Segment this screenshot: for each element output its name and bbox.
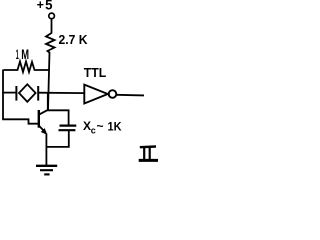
svg-text:2.7 K: 2.7 K [59,32,89,47]
figure numeral II stroke 2 [149,147,151,160]
figure numeral II stroke 1 [143,147,145,160]
supply terminal circle [49,13,55,19]
wire base with jog [2,119,38,123]
capacitor C1 top plate [60,124,77,126]
ground bar 3 [44,173,49,175]
wire collector to capacitor [47,110,68,125]
wire left rail [2,70,4,120]
wire capacitor bottom to emitter node [46,131,68,147]
svg-text:TTL: TTL [84,65,107,80]
svg-text:~: ~ [97,119,104,133]
wire crystal branch left [2,92,16,94]
transistor Q1 emitter lead [40,126,46,133]
svg-text:1: 1 [16,46,19,62]
wire crystal to inverter input [38,92,84,94]
transistor Q1 emitter arrowhead [41,129,47,135]
ground bar 2 [40,169,53,171]
inverter U1 output bubble [109,90,117,98]
transistor Q1 collector lead [40,110,49,115]
wire main bus R1 to collector node [48,52,50,110]
svg-text:c: c [91,125,96,135]
wire terminal to R1 [51,19,53,34]
figure numeral II top serif [140,145,156,148]
wire inverter output [117,94,145,97]
resistor R1 2.7K zigzag [46,33,55,53]
svg-text:+: + [37,0,44,12]
ground bar 1 [36,165,57,167]
svg-text:1K: 1K [108,119,122,133]
wire collector node drop [47,93,49,110]
crystal Y1 left plate [15,86,17,101]
transistor Q1 base bar [38,110,40,128]
svg-text:5: 5 [45,0,53,13]
resistor R2 1M horizontal [4,62,50,73]
figure numeral II bottom serif [139,159,158,162]
capacitor C1 bottom plate [59,129,76,131]
crystal Y1 diamond body [19,84,36,102]
inverter U1 triangle [84,85,108,104]
wire emitter down to ground [45,134,47,166]
crystal Y1 right plate [37,86,39,101]
svg-text:M: M [21,46,29,62]
